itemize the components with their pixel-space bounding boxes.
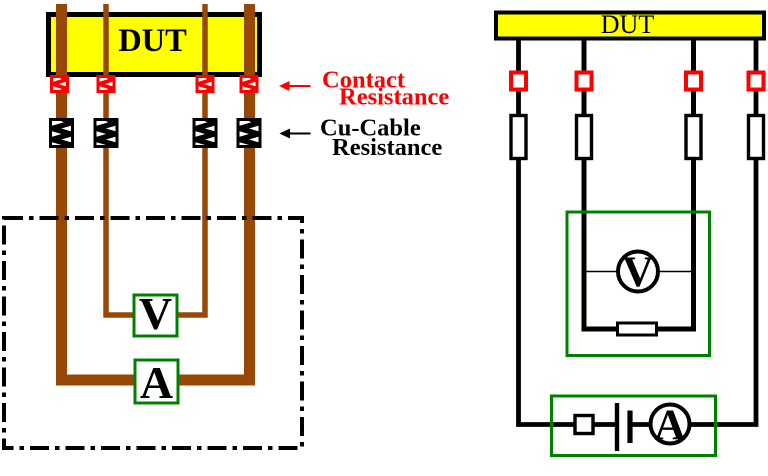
svg-text:V: V	[139, 288, 172, 339]
svg-text:DUT: DUT	[601, 10, 655, 39]
svg-text:V: V	[622, 248, 653, 296]
svg-text:A: A	[654, 401, 686, 449]
svg-text:A: A	[140, 357, 173, 408]
svg-text:Resistance: Resistance	[339, 84, 449, 111]
svg-text:Resistance: Resistance	[332, 134, 442, 161]
svg-text:DUT: DUT	[118, 23, 187, 59]
